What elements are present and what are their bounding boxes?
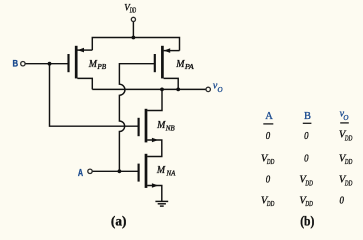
svg-text:0: 0 xyxy=(304,153,309,164)
svg-text:M: M xyxy=(156,120,166,131)
svg-text:0: 0 xyxy=(304,131,309,142)
svg-text:B: B xyxy=(13,59,19,70)
svg-text:DD: DD xyxy=(344,133,353,142)
svg-text:M: M xyxy=(175,59,185,70)
svg-text:(a): (a) xyxy=(111,215,127,230)
svg-text:A: A xyxy=(78,168,83,179)
svg-text:DD: DD xyxy=(266,199,275,208)
svg-text:DD: DD xyxy=(305,178,314,187)
svg-text:PB: PB xyxy=(96,62,106,71)
svg-text:0: 0 xyxy=(266,175,271,186)
svg-text:O: O xyxy=(218,86,223,94)
svg-text:0: 0 xyxy=(266,131,271,142)
svg-text:NA: NA xyxy=(166,169,176,178)
svg-text:0: 0 xyxy=(340,195,345,206)
svg-text:A: A xyxy=(265,111,273,122)
svg-text:DD: DD xyxy=(129,7,136,14)
svg-text:M: M xyxy=(88,59,98,70)
svg-text:PA: PA xyxy=(184,62,194,71)
svg-text:NB: NB xyxy=(165,123,175,132)
svg-text:O: O xyxy=(343,114,348,122)
svg-text:(b): (b) xyxy=(300,215,314,230)
svg-text:DD: DD xyxy=(266,157,275,166)
svg-text:B: B xyxy=(304,111,311,122)
svg-text:DD: DD xyxy=(344,157,353,166)
svg-text:M: M xyxy=(156,165,166,176)
svg-text:DD: DD xyxy=(305,199,314,208)
svg-text:DD: DD xyxy=(344,178,353,187)
